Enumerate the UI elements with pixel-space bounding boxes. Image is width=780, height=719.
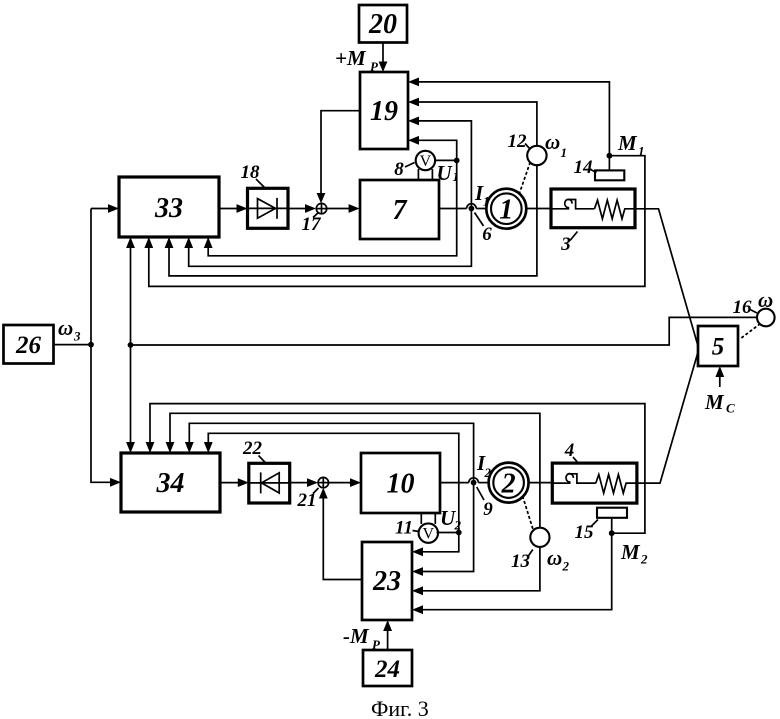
wire 4 to 5 diagonal — [637, 352, 698, 483]
svg-text:1: 1 — [561, 145, 568, 160]
label +Mp — [335, 46, 379, 74]
svg-text:10: 10 — [387, 469, 415, 500]
shaft wire motor 1 to block 3 — [526, 208, 551, 210]
wire 3 to 5 diagonal — [635, 209, 698, 346]
svg-text:U: U — [437, 161, 454, 185]
wire omega1 into 19 — [408, 98, 537, 146]
block 19 — [360, 72, 408, 149]
svg-text:ω: ω — [58, 316, 73, 340]
shaft wire 10 to motor 2 — [440, 482, 489, 484]
block 26 — [4, 325, 54, 364]
block 24 — [363, 650, 412, 686]
wire 22 to junction 21 — [290, 478, 318, 487]
shaft wire motor 2 to block 4 — [529, 482, 553, 484]
label -Mp — [343, 624, 381, 652]
svg-text:34: 34 — [156, 468, 185, 499]
wire I1 down to 33 — [184, 209, 471, 267]
block 20 — [359, 5, 407, 43]
wire omega2 down to 23 — [412, 547, 540, 595]
svg-text:33: 33 — [154, 193, 183, 224]
svg-text:Фиг. 3: Фиг. 3 — [371, 696, 429, 719]
wire omega1 down to 33 — [165, 165, 537, 276]
svg-text:V: V — [423, 526, 435, 543]
block 34 — [121, 453, 220, 512]
svg-text:ω: ω — [758, 288, 773, 312]
block 23 — [362, 542, 412, 620]
wire 24 to 23 — [383, 620, 392, 650]
wire I2 up to 34 — [185, 423, 474, 482]
label omega1 — [545, 130, 567, 160]
svg-text:3: 3 — [560, 234, 571, 255]
wire 18 to junction 17 — [288, 204, 316, 213]
svg-text:20: 20 — [368, 9, 397, 40]
svg-text:17: 17 — [302, 214, 323, 235]
node U1 dot — [454, 158, 460, 164]
label 3 — [560, 232, 577, 256]
motor 2 — [489, 463, 529, 503]
svg-text:ω: ω — [545, 130, 560, 154]
svg-text:19: 19 — [370, 96, 398, 127]
speed sensor 16 — [740, 309, 775, 339]
current node 9 bump — [469, 478, 479, 486]
block 4 with backlash and spring — [552, 463, 637, 503]
svg-text:1: 1 — [453, 169, 460, 184]
voltmeter 8 — [416, 151, 435, 180]
wire U1 down to 33 — [204, 160, 457, 255]
label 12 — [508, 131, 530, 152]
wire M1 feedback into 19 (top arrow) — [408, 78, 609, 156]
svg-text:M: M — [620, 540, 641, 564]
svg-text:7: 7 — [393, 195, 408, 226]
svg-text:C: C — [726, 401, 735, 416]
svg-text:11: 11 — [395, 518, 413, 539]
block 3 with backlash and spring — [551, 189, 635, 228]
svg-text:1: 1 — [499, 195, 513, 226]
label M2 — [620, 540, 648, 567]
label omega3 — [58, 316, 81, 344]
wire U2 up to 34 — [204, 433, 459, 532]
wire M1 feedback down to 33 — [144, 156, 645, 287]
node U2 dot — [456, 530, 462, 536]
torque sensor 14 — [595, 153, 624, 180]
svg-text:13: 13 — [511, 551, 530, 572]
current node 6 bump — [467, 204, 477, 212]
wire 33 to diode 18 — [219, 204, 248, 213]
svg-text:5: 5 — [712, 334, 725, 361]
label 9 — [477, 487, 494, 520]
speed sensor 13 — [523, 497, 550, 547]
label M1 — [617, 131, 645, 159]
wire 19 output to junction 17 — [317, 111, 360, 204]
label U1 — [437, 161, 460, 185]
wire 17 to block 7 — [327, 204, 360, 213]
label 22 — [242, 438, 266, 463]
wire M2 feedback down to 34 — [146, 404, 645, 534]
svg-text:2: 2 — [501, 468, 516, 499]
svg-text:12: 12 — [508, 131, 528, 152]
wire voltmeter to node U1 — [434, 159, 456, 161]
svg-text:6: 6 — [482, 224, 492, 245]
wire omega feedback to 33 and 34 — [126, 237, 757, 453]
wire 20 to 19 — [379, 43, 388, 73]
svg-text:15: 15 — [575, 522, 595, 543]
wire M2 down to 23 — [412, 533, 612, 614]
wire I1 into 19 — [408, 117, 471, 209]
diode box 22 — [249, 463, 290, 503]
summing junction 17 — [316, 203, 326, 213]
wire 34 to diode 22 — [220, 478, 249, 487]
wire 21 to block 10 — [329, 478, 362, 487]
block 7 — [360, 180, 439, 239]
svg-text:26: 26 — [15, 332, 42, 359]
svg-text:V: V — [420, 153, 432, 170]
svg-text:2: 2 — [562, 559, 570, 574]
svg-text:16: 16 — [733, 297, 753, 318]
label 14 — [574, 157, 597, 178]
svg-text:M: M — [617, 131, 638, 155]
svg-text:24: 24 — [374, 656, 400, 683]
wire omega3 bus — [54, 209, 122, 487]
label 15 — [575, 520, 599, 544]
diode box 18 — [248, 188, 289, 228]
svg-text:+M: +M — [335, 46, 367, 70]
label omega2 text — [547, 546, 570, 574]
wire 23 output to junction 21 — [319, 488, 362, 580]
label I2 — [476, 451, 492, 480]
wire omega3 into 33 — [91, 204, 119, 213]
voltmeter 11 — [419, 513, 438, 543]
label omega by 16 — [758, 288, 773, 312]
wire omega2 up to 34 — [166, 413, 540, 527]
label 6 — [475, 213, 493, 246]
label I1 — [474, 181, 490, 209]
torque sensor 15 — [597, 508, 627, 536]
summing junction 21 — [318, 477, 328, 487]
label 13 — [511, 550, 533, 573]
wire voltmeter 11 to node U2 — [437, 532, 459, 534]
svg-text:3: 3 — [73, 329, 81, 344]
svg-text:-M: -M — [343, 624, 370, 648]
shaft wire 7 to motor 1 — [439, 208, 486, 210]
wire U1 into 19 — [408, 136, 457, 161]
svg-text:2: 2 — [454, 518, 462, 533]
label 11 — [395, 518, 419, 539]
speed sensor 12 — [519, 146, 547, 196]
label 18 — [241, 162, 266, 188]
svg-text:ω: ω — [547, 546, 562, 570]
block 10 — [361, 453, 440, 513]
svg-text:8: 8 — [394, 159, 404, 180]
svg-text:23: 23 — [372, 566, 401, 597]
svg-text:2: 2 — [640, 552, 648, 567]
block 5 — [698, 326, 738, 366]
svg-text:P: P — [372, 637, 381, 652]
label 4 — [564, 440, 578, 463]
wire U2 down to 23 — [412, 533, 459, 557]
label U2 — [440, 506, 462, 533]
motor 1 — [486, 189, 526, 229]
caption — [371, 696, 429, 719]
svg-text:1: 1 — [638, 144, 645, 159]
Mc arrow into 5 — [704, 366, 735, 416]
label 16 — [733, 297, 758, 318]
block 33 — [119, 177, 219, 237]
label 17 — [302, 213, 323, 235]
svg-text:M: M — [704, 390, 725, 414]
wire I2 down to 23 — [412, 483, 474, 576]
svg-text:9: 9 — [483, 499, 493, 520]
label 21 — [297, 488, 319, 511]
svg-text:14: 14 — [574, 157, 593, 178]
label 8 — [394, 159, 414, 180]
